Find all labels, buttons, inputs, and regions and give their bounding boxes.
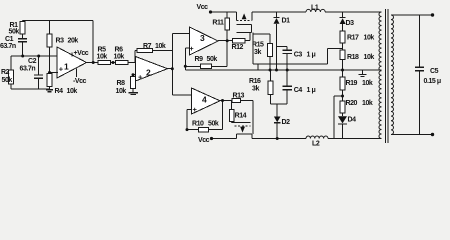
svg-text:10k: 10k [364, 54, 375, 61]
svg-text:R16: R16 [249, 78, 261, 85]
transformer core [386, 9, 388, 143]
wire op3 minus input [172, 33, 189, 35]
svg-text:R6: R6 [115, 46, 124, 53]
svg-text:C1: C1 [5, 36, 14, 43]
svg-text:10k: 10k [362, 100, 373, 107]
node C3 column mid rail [286, 69, 289, 72]
svg-text:D1: D1 [282, 17, 291, 24]
svg-text:10k: 10k [364, 35, 375, 42]
diode D1 bar [274, 16, 280, 18]
transistor Q2 [232, 122, 251, 124]
node C2 junction [37, 55, 40, 58]
svg-text:+: + [59, 64, 64, 73]
svg-text:D2: D2 [282, 119, 291, 126]
wire gate Q1 [249, 33, 251, 41]
wire op3 plus feedback [185, 48, 190, 66]
node D2 bottom [276, 137, 279, 140]
node D1 column mid rail [275, 69, 278, 72]
wire mid rail (centre tap) [185, 66, 381, 70]
svg-text:10k: 10k [97, 53, 108, 60]
wire input node [11, 55, 57, 57]
resistor R11 [226, 12, 228, 41]
wire -Vcc tick op1 [76, 68, 78, 77]
svg-text:C3: C3 [294, 51, 303, 58]
wire R5-R6 [111, 62, 116, 64]
svg-text:1 μ: 1 μ [307, 51, 316, 58]
svg-text:R4: R4 [55, 88, 64, 95]
diode D3 column [342, 12, 344, 31]
node R3-R4 junction [48, 71, 51, 74]
wire R19-R20 junction branch [334, 96, 343, 139]
svg-text:R3: R3 [56, 37, 65, 44]
svg-text:10k: 10k [67, 88, 78, 95]
wire Vcc top rail [211, 12, 382, 21]
svg-text:R20: R20 [346, 100, 358, 107]
wire op1 output [87, 62, 99, 64]
svg-text:10k: 10k [116, 88, 127, 95]
inductor L1 [306, 9, 325, 12]
ground under R4 [46, 89, 53, 91]
op-amp U3 [190, 27, 219, 55]
svg-text:R15: R15 [252, 42, 264, 49]
wire top feedback [23, 21, 94, 63]
resistor R6 [116, 60, 129, 64]
svg-text:1: 1 [64, 61, 69, 71]
wire secondary bottom [391, 134, 433, 136]
node op1 output [92, 61, 95, 64]
wire op2 output [168, 68, 173, 70]
svg-text:63.7n: 63.7n [20, 65, 36, 72]
svg-text:1 μ: 1 μ [307, 87, 316, 94]
resistor R13 [232, 98, 241, 102]
node R10 left [186, 128, 189, 131]
wire op2 plus input [133, 74, 136, 76]
svg-text:50k: 50k [207, 56, 218, 63]
resistor R9 [201, 64, 212, 68]
svg-text:0.15 μ: 0.15 μ [424, 78, 441, 85]
transistor Q2 arrow [240, 127, 245, 133]
diode D3 bar [340, 17, 346, 19]
svg-text:D4: D4 [348, 117, 357, 124]
svg-text:10k: 10k [114, 53, 125, 60]
svg-text:63.7n: 63.7n [0, 43, 16, 50]
svg-text:D3: D3 [346, 20, 355, 27]
svg-text:R13: R13 [233, 92, 245, 99]
ground under R8 [129, 92, 139, 94]
wire op1 plus input [50, 72, 59, 74]
wire secondary top [391, 14, 433, 16]
svg-text:+: + [193, 105, 198, 114]
transformer secondary winding [391, 15, 393, 134]
node op2 output [171, 67, 174, 70]
wire R15 top [253, 34, 270, 44]
wire op4 output [220, 101, 253, 134]
resistor R8 [132, 75, 134, 92]
svg-text:Vcc: Vcc [198, 137, 210, 144]
node Vcc top [209, 10, 212, 13]
svg-text:R19: R19 [346, 80, 358, 87]
node R9 left [184, 65, 187, 68]
resistor R5 [98, 60, 111, 64]
wire R6 to op2 [128, 62, 136, 64]
node R18 bottom [341, 69, 344, 72]
svg-text:3: 3 [200, 33, 205, 43]
svg-text:R5: R5 [98, 46, 107, 53]
diode D2 [274, 122, 281, 124]
wire branch to C3 [277, 45, 288, 47]
svg-text:10k: 10k [362, 80, 373, 87]
ground on mid rail [361, 70, 363, 74]
svg-text:R14: R14 [235, 112, 247, 119]
svg-text:R11: R11 [212, 19, 224, 26]
node op4 output [221, 99, 224, 102]
node C1 junction [21, 55, 24, 58]
svg-text:4: 4 [202, 94, 207, 104]
diode D4 [338, 123, 347, 125]
svg-text:50k: 50k [2, 77, 13, 84]
svg-text:20k: 20k [68, 37, 79, 44]
node R8 junction [132, 73, 135, 76]
capacitor C2 [38, 56, 40, 75]
svg-text:+: + [189, 44, 194, 53]
svg-text:Vcc: Vcc [197, 4, 209, 11]
wire op4 plus feedback [187, 110, 192, 130]
svg-text:C5: C5 [430, 68, 439, 75]
svg-text:R10: R10 [192, 121, 204, 128]
wire Z-link to R17-R18 junction [253, 48, 343, 70]
resistor R2 [10, 56, 12, 89]
wire R9 loop [185, 41, 227, 67]
wire comparator bus [171, 34, 173, 96]
wire Vcc bottom rail [212, 134, 382, 139]
wire op4 minus input [172, 94, 191, 96]
op-amp U2 [136, 57, 168, 82]
resistor R7 [137, 48, 153, 52]
diode D1 triangle [274, 18, 280, 24]
wire +Vcc tick op1 [71, 53, 73, 57]
svg-text:3k: 3k [252, 85, 259, 92]
svg-text:R12: R12 [232, 44, 244, 51]
op-amp U4 [192, 88, 221, 114]
node output terminal top [431, 13, 434, 16]
wire op3 output [218, 40, 250, 42]
capacitor C4 [286, 70, 288, 86]
resistor R17 [340, 31, 345, 43]
resistor R4 [49, 73, 51, 90]
svg-text:-Vcc: -Vcc [73, 78, 87, 85]
svg-text:2: 2 [146, 68, 151, 78]
svg-text:10k: 10k [155, 43, 166, 50]
op-amp U1 [57, 47, 87, 78]
diode D2 triangle [274, 117, 281, 123]
node op3 output [226, 39, 229, 42]
svg-text:+: + [138, 72, 143, 81]
wire Q1 source to mid rail [252, 33, 254, 64]
wire R16 to D2 [270, 104, 287, 117]
resistor R10 [199, 127, 209, 131]
node R19-R20 junction [341, 95, 344, 98]
resistor R1 [22, 21, 24, 38]
svg-text:50k: 50k [9, 28, 20, 35]
svg-text:50k: 50k [208, 121, 219, 128]
transformer primary winding [379, 12, 382, 139]
diode D3 triangle [340, 18, 346, 24]
diode D4 triangle [338, 116, 347, 123]
resistor R15 [268, 44, 273, 57]
inductor L2 [306, 136, 328, 139]
capacitor C5 [419, 15, 421, 67]
wire R10 loop [187, 101, 223, 130]
svg-text:C4: C4 [294, 87, 303, 94]
svg-text:R9: R9 [195, 56, 204, 63]
svg-text:R17: R17 [347, 35, 359, 42]
svg-text:+Vcc: +Vcc [74, 50, 89, 57]
svg-text:3k: 3k [254, 49, 261, 56]
capacitor C3 [286, 46, 288, 49]
node Vcc bottom [210, 137, 213, 140]
resistor R16 [269, 70, 271, 104]
diode D1 column [276, 12, 278, 70]
svg-text:R7: R7 [143, 43, 152, 50]
capacitor C1 [18, 39, 27, 42]
node R15-R16 junction [269, 69, 272, 72]
svg-text:L1: L1 [311, 5, 319, 12]
transistor Q1 arrow [242, 13, 247, 19]
wire R7 feedback loop [135, 51, 172, 63]
resistor R19 [342, 70, 344, 96]
resistor R3 [49, 21, 51, 73]
svg-text:R2: R2 [1, 69, 10, 76]
svg-text:R18: R18 [347, 54, 359, 61]
resistor R20 [342, 96, 344, 116]
transistor Q1 [237, 20, 253, 22]
node output terminal bottom [431, 133, 434, 136]
node R5-R6 junction [112, 61, 115, 64]
resistor R14 [231, 101, 233, 123]
wire ground rail left [11, 88, 50, 90]
svg-text:L2: L2 [312, 140, 320, 147]
resistor R12 [233, 39, 246, 43]
svg-text:C2: C2 [28, 58, 37, 65]
svg-text:R8: R8 [117, 80, 126, 87]
resistor R18 [340, 50, 345, 59]
